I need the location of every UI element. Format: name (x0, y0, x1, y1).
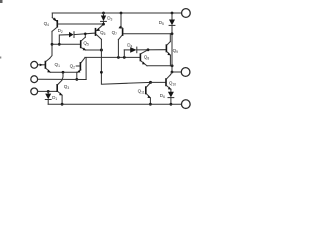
transistor Q11 (138, 83, 151, 105)
node dot y72.3 end (100, 71, 103, 74)
wire x172 net vertical (171, 34, 173, 72)
node dot D4 branch on y57.4 (123, 56, 126, 59)
wire D4 anode riser (123, 50, 125, 58)
diode D5 (159, 13, 175, 34)
wire Q6 collector long vertical, corner to Q11 line (101, 39, 150, 84)
wire Q5 emitter to x101.4 (86, 49, 102, 51)
node dot x172/y65.8 (171, 64, 174, 67)
node dot y72.3/Q3 collector (62, 71, 65, 74)
transistor Q5 (52, 34, 89, 50)
transistor Q6 (95, 24, 106, 39)
terminal bottom right (181, 100, 190, 109)
node dot D2 anode / Q5 base line (58, 43, 61, 46)
node dot rail/Q7 (120, 12, 123, 15)
wire Q2 collector riser to input2 line (85, 58, 87, 80)
transistor Q10 (165, 72, 176, 90)
terminal output (181, 68, 190, 77)
node dot output (171, 71, 174, 74)
terminal input 3 (31, 88, 38, 95)
wire y72.3 corner down to input2 line (76, 72, 78, 79)
transistor Q9 (166, 34, 179, 66)
wire Q4 collector down (50, 31, 52, 58)
node dot Q7 collector / y57.4 (117, 56, 120, 59)
node dot rail/D3 (102, 12, 105, 15)
wire Q10 base (151, 81, 166, 83)
wire input2 (38, 78, 86, 80)
node dot Q3 emitter / bottom rail (61, 103, 64, 106)
wire to output terminal (172, 71, 181, 73)
wire Q8 emitter to x172 (147, 65, 172, 67)
transistor Q8 (140, 50, 150, 66)
top rail V+ (52, 12, 181, 14)
transistor Q2 (70, 58, 85, 73)
node dot input2 line (75, 78, 78, 81)
bottom rail V- (48, 103, 181, 105)
node dot N1 / D3 cathode (102, 23, 105, 26)
node dot x101.4/y50 (100, 49, 103, 52)
node dot Q10 base / Q11 collector (149, 81, 152, 84)
scan artifact left edge (0, 57, 1, 59)
diode D2 (58, 28, 95, 45)
emitter net wire y72.3 (50, 71, 77, 73)
transistor Q1 (38, 58, 60, 72)
node dot input3/D1 (47, 90, 50, 93)
diode D1 (45, 91, 57, 104)
diode D4 (124, 43, 166, 53)
terminal input 2 (31, 76, 38, 83)
node dot Q11 emitter / bottom rail (149, 103, 152, 106)
wire Q2 collector line y57.4 (85, 56, 140, 58)
node dot Q4col/Q5 base (51, 43, 54, 46)
scan artifact top-left corner (0, 0, 3, 3)
transistor Q7 (112, 13, 172, 40)
diode D3 (101, 13, 113, 24)
wire Q7 collector down (117, 40, 119, 58)
wire input3 to Q3 (38, 90, 57, 92)
node dot D2 line / Q5 collector (84, 33, 87, 36)
node dot y33.8/x172 (171, 32, 174, 35)
node dot rail/D5 (171, 12, 174, 15)
transistor Q3 (56, 72, 69, 104)
transistor Q4 (44, 13, 104, 31)
terminal V+ (182, 9, 191, 18)
node dot Q8 collector junction (147, 48, 150, 51)
diode D6 (160, 89, 174, 104)
terminal input1 (31, 61, 38, 68)
node dot D6 / bottom rail (170, 103, 173, 106)
